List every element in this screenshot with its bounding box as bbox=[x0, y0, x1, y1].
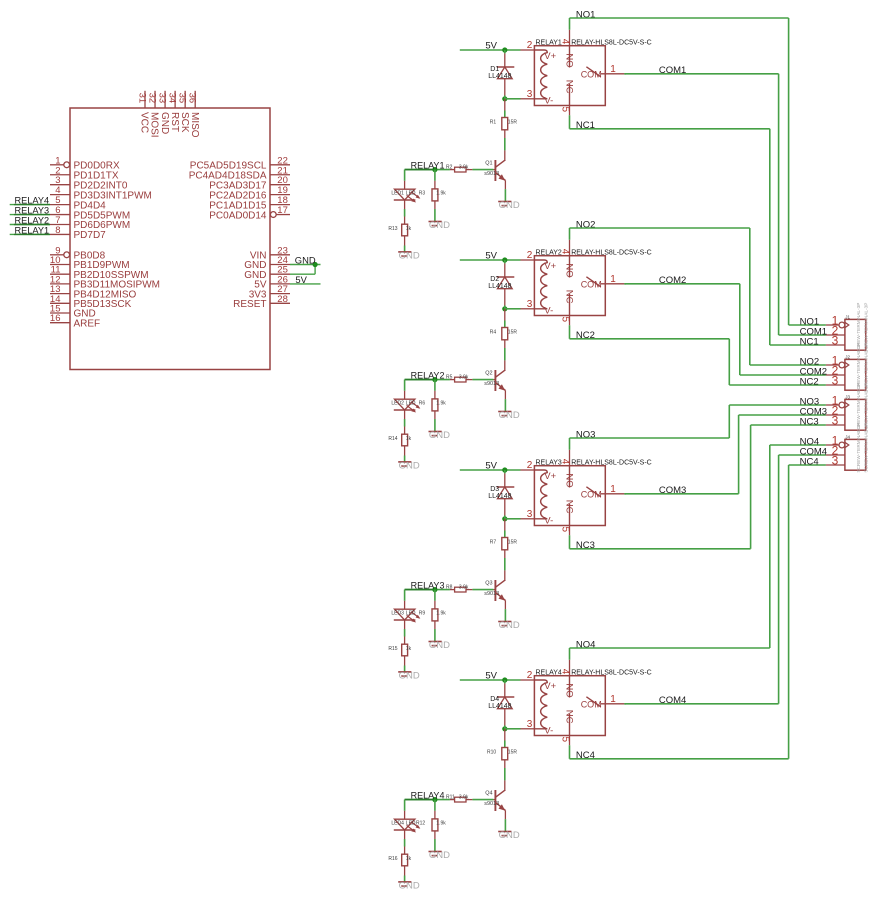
wire NO4 vertical stub bbox=[569, 648, 571, 660]
mcu pin 9 PB0D8 bbox=[50, 245, 106, 261]
label RELAY2 at mcu bbox=[15, 215, 50, 225]
label R5 bbox=[446, 375, 453, 381]
pin 1 label relay4 bbox=[610, 694, 616, 705]
label 1k value of R14 bbox=[406, 436, 412, 442]
svg-text:LED: LED bbox=[406, 611, 416, 617]
label COM2 at terminal bbox=[800, 366, 827, 377]
label COM relay1 bbox=[581, 70, 602, 80]
svg-text:PD7D7: PD7D7 bbox=[74, 230, 107, 241]
svg-text:15R: 15R bbox=[508, 120, 518, 126]
svg-text:NO: NO bbox=[564, 263, 575, 277]
label 1.9k value of R3 bbox=[436, 191, 446, 197]
diode D3 bbox=[497, 470, 514, 519]
svg-text:R6: R6 bbox=[419, 401, 426, 407]
connector J4 pin 2 bbox=[826, 454, 845, 456]
label R14 bbox=[388, 436, 397, 442]
svg-text:Q1: Q1 bbox=[485, 161, 492, 167]
label COM1 at terminal bbox=[800, 326, 827, 337]
wire NC3 vertical stub bbox=[569, 535, 571, 549]
pin 3 label relay2 bbox=[527, 299, 533, 310]
mcu pin 32 MOSI bbox=[146, 91, 159, 138]
wire net NO1 route to terminal bbox=[570, 18, 826, 325]
label RELAY-HLS8L-DC5V-S-C value bbox=[571, 670, 652, 677]
relay2 pin1 COM stub bbox=[601, 283, 625, 285]
label COM relay2 bbox=[581, 280, 602, 290]
wire NO1 vertical stub bbox=[569, 18, 571, 30]
pin 4 label relay2 bbox=[559, 249, 570, 255]
svg-text:5V: 5V bbox=[485, 461, 497, 472]
resistor R4 15R bbox=[502, 309, 508, 361]
wire net GND at mcu pins 24-25 bbox=[290, 265, 321, 275]
relay RELAY4 body bbox=[534, 676, 605, 736]
label GND at mcu bbox=[295, 255, 316, 266]
svg-text:NO: NO bbox=[564, 473, 575, 487]
node base junction relay2 bbox=[432, 377, 437, 382]
svg-text:V-: V- bbox=[544, 305, 553, 316]
led LED2 bbox=[394, 399, 421, 412]
wire relay2 pin3 bbox=[505, 308, 535, 310]
relay3 pin1 COM stub bbox=[601, 493, 625, 495]
label 1.9k value of R12 bbox=[436, 821, 446, 827]
wire relay4 pin3 bbox=[505, 728, 535, 730]
svg-text:R12: R12 bbox=[416, 821, 425, 827]
label SCREW-TERMINAL-3P name J2 bbox=[856, 343, 861, 393]
relay3 coil bbox=[534, 470, 547, 519]
label D4 bbox=[490, 696, 499, 703]
pin 3 label J1 bbox=[832, 333, 839, 347]
wire NC1 vertical stub bbox=[569, 115, 571, 129]
pin 2 label relay4 bbox=[527, 670, 533, 681]
wire NO3 vertical stub bbox=[569, 438, 571, 450]
relay RELAY1 body bbox=[534, 46, 605, 106]
svg-text:GND: GND bbox=[499, 200, 520, 211]
wire relay1 pin3 bbox=[505, 98, 535, 100]
mcu pin 36 MISO bbox=[187, 91, 200, 138]
wire NO2 vertical stub bbox=[569, 228, 571, 240]
svg-text:5: 5 bbox=[559, 317, 570, 323]
mcu pin 3 PD2D2INT0 bbox=[50, 175, 128, 191]
label LED value of LED3 bbox=[406, 611, 416, 617]
svg-text:RESET: RESET bbox=[233, 299, 266, 310]
relay3 pin4 NO stub bbox=[569, 450, 571, 488]
label 1.9k value of R6 bbox=[436, 401, 446, 407]
svg-text:RELAY2: RELAY2 bbox=[536, 250, 562, 257]
ground below R13 bbox=[398, 250, 420, 261]
label s9013 value of Q3 bbox=[484, 591, 499, 597]
pin 4 label relay1 bbox=[559, 39, 570, 45]
svg-text:LED1: LED1 bbox=[391, 191, 404, 197]
resistor R5 3.9k bbox=[450, 377, 496, 382]
pin 1 label relay2 bbox=[610, 274, 616, 285]
mcu pin 14 PB5D13SCK bbox=[50, 294, 132, 310]
label s9013 value of Q2 bbox=[484, 381, 499, 387]
transistor Q3 bbox=[495, 570, 505, 621]
svg-text:3: 3 bbox=[832, 333, 839, 347]
svg-text:V+: V+ bbox=[544, 681, 556, 692]
resistor R7 15R bbox=[502, 519, 508, 571]
resistor R9 1.9k bbox=[432, 590, 438, 642]
svg-text:GND: GND bbox=[499, 410, 520, 421]
label COM3 at terminal bbox=[800, 406, 827, 417]
mcu pin 16 AREF bbox=[50, 313, 100, 329]
connector J2 pin 3 bbox=[826, 384, 845, 386]
label V- relay1 bbox=[544, 95, 553, 106]
label 15R value of R4 bbox=[508, 330, 518, 336]
svg-text:V+: V+ bbox=[544, 471, 556, 482]
ground below R14 bbox=[398, 460, 420, 471]
label J1 designator bbox=[845, 315, 850, 320]
svg-text:COM: COM bbox=[581, 700, 602, 710]
resistor R3 1.9k bbox=[432, 170, 438, 222]
pin 3 label J3 bbox=[832, 413, 839, 427]
mcu pin 18 PC1AD1D15 bbox=[209, 195, 290, 211]
svg-text:J3: J3 bbox=[845, 395, 850, 400]
wire 5V rail relay4 bbox=[460, 679, 521, 681]
resistor R15 1k bbox=[402, 620, 408, 672]
wire relay2 driver input row bbox=[405, 379, 450, 381]
label 3.9k value of R8 bbox=[459, 585, 469, 591]
label R10 bbox=[487, 750, 496, 756]
relay4 switch blade bbox=[586, 697, 600, 707]
label 15R value of R10 bbox=[508, 750, 518, 756]
pin 3 label relay1 bbox=[527, 89, 533, 100]
svg-text:1: 1 bbox=[610, 694, 616, 705]
svg-text:16: 16 bbox=[50, 313, 61, 324]
label RELAY4 at mcu bbox=[15, 195, 50, 205]
connector J2 body bbox=[845, 359, 866, 390]
svg-text:RELAY3: RELAY3 bbox=[15, 205, 50, 215]
label Q1 bbox=[485, 161, 492, 167]
pin 4 label relay3 bbox=[559, 459, 570, 465]
svg-text:36: 36 bbox=[187, 93, 198, 104]
svg-text:GND: GND bbox=[399, 880, 420, 891]
pin 2 label relay2 bbox=[527, 250, 533, 261]
label LED value of LED4 bbox=[406, 821, 416, 827]
relay3 pin5 NC stub bbox=[569, 504, 571, 535]
label R1 bbox=[490, 120, 497, 126]
mcu pin 20 PC3AD3D17 bbox=[209, 175, 290, 191]
label NO4 net bbox=[576, 639, 596, 650]
svg-text:3: 3 bbox=[527, 299, 533, 310]
svg-text:33: 33 bbox=[156, 93, 167, 104]
svg-text:s9013: s9013 bbox=[484, 171, 499, 177]
label R15 bbox=[388, 646, 397, 652]
resistor R2 3.9k bbox=[450, 167, 496, 172]
label 3.9k value of R2 bbox=[459, 165, 469, 171]
svg-text:LED3: LED3 bbox=[391, 611, 404, 617]
label NO contact relay1 bbox=[564, 53, 575, 67]
svg-text:4: 4 bbox=[559, 669, 570, 675]
ground below R9 bbox=[429, 640, 451, 651]
label 15R value of R7 bbox=[508, 540, 518, 546]
label R13 bbox=[388, 226, 397, 232]
label NO2 at terminal bbox=[800, 356, 820, 367]
label Q4 bbox=[485, 791, 492, 797]
svg-text:NC: NC bbox=[564, 710, 575, 724]
relay RELAY3 body bbox=[534, 466, 605, 526]
ground below R6 bbox=[429, 430, 451, 441]
mcu pin 22 PC5AD5D19SCL bbox=[190, 155, 290, 171]
node Vminus junction relay1 bbox=[502, 96, 507, 101]
node 5V junction relay2 bbox=[502, 257, 507, 262]
label R3 bbox=[419, 191, 426, 197]
svg-text:3: 3 bbox=[527, 719, 533, 730]
label NC contact relay2 bbox=[564, 290, 575, 304]
wire led branch relay4 bbox=[404, 800, 406, 820]
wire net COM3 route to terminal bbox=[624, 415, 826, 494]
pin 1 label J4 bbox=[832, 433, 839, 447]
label V- relay3 bbox=[544, 515, 553, 526]
label V+ relay4 bbox=[544, 681, 556, 692]
svg-text:1: 1 bbox=[610, 64, 616, 75]
wire net COM1 route to terminal bbox=[624, 74, 826, 335]
label D3 bbox=[490, 486, 499, 493]
resistor R13 1k bbox=[402, 200, 408, 252]
label NO contact relay4 bbox=[564, 683, 575, 697]
svg-text:1.9k: 1.9k bbox=[436, 191, 446, 197]
svg-text:NC4: NC4 bbox=[800, 456, 819, 467]
svg-text:GND: GND bbox=[499, 620, 520, 631]
svg-text:4: 4 bbox=[559, 249, 570, 255]
junction GND elbow bbox=[313, 262, 318, 267]
svg-text:NC1: NC1 bbox=[800, 336, 819, 347]
svg-text:NC: NC bbox=[564, 500, 575, 514]
svg-text:V+: V+ bbox=[544, 261, 556, 272]
label R11 bbox=[446, 795, 455, 801]
svg-text:VCC: VCC bbox=[139, 112, 150, 133]
svg-text:4: 4 bbox=[559, 459, 570, 465]
svg-text:AREF: AREF bbox=[74, 318, 101, 329]
label COM4 at terminal bbox=[800, 446, 827, 457]
svg-text:5V: 5V bbox=[485, 41, 497, 52]
resistor R14 1k bbox=[402, 410, 408, 462]
svg-text:LL4148: LL4148 bbox=[488, 493, 511, 500]
wire led branch relay1 bbox=[404, 170, 406, 190]
label NO3 net bbox=[576, 429, 596, 440]
label NC1 net bbox=[576, 120, 595, 131]
svg-text:LED4: LED4 bbox=[391, 821, 404, 827]
label NO4 at terminal bbox=[800, 436, 820, 447]
label V- relay2 bbox=[544, 305, 553, 316]
label R9 bbox=[419, 611, 426, 617]
wire net NO4 route to terminal bbox=[570, 445, 826, 648]
label 1k value of R16 bbox=[406, 856, 412, 862]
label RELAY-HLS8L-DC5V-S-C value bbox=[571, 460, 652, 467]
label R2 bbox=[446, 165, 453, 171]
label RELAY2 designator bbox=[536, 250, 562, 257]
svg-text:1k: 1k bbox=[406, 226, 412, 232]
wire net 5V at mcu pin 26 bbox=[290, 283, 321, 285]
relay3 switch blade bbox=[586, 487, 600, 497]
led LED3 bbox=[394, 609, 421, 622]
label s9013 value of Q1 bbox=[484, 171, 499, 177]
svg-text:4: 4 bbox=[559, 39, 570, 45]
svg-text:V-: V- bbox=[544, 95, 553, 106]
wire NC2 vertical stub bbox=[569, 325, 571, 339]
ground below R12 bbox=[429, 850, 451, 861]
label 1k value of R15 bbox=[406, 646, 412, 652]
label NC contact relay3 bbox=[564, 500, 575, 514]
svg-text:NO: NO bbox=[564, 53, 575, 67]
relay1 pin5 NC stub bbox=[569, 84, 571, 115]
label RELAY4 net at driver bbox=[411, 790, 445, 800]
label J3 designator bbox=[845, 395, 850, 400]
label RELAY2 net at driver bbox=[411, 370, 445, 380]
relay1 pin4 NO stub bbox=[569, 30, 571, 68]
led LED1 bbox=[394, 189, 421, 202]
label R8 bbox=[446, 585, 453, 591]
connector J3 body bbox=[845, 399, 866, 430]
connector J2 pin 1 bbox=[826, 362, 849, 368]
svg-text:31: 31 bbox=[136, 93, 147, 104]
svg-text:RELAY-HLS8L-DC5V-S-C: RELAY-HLS8L-DC5V-S-C bbox=[571, 670, 652, 677]
svg-text:8: 8 bbox=[55, 225, 60, 236]
svg-text:SCREW-TERMINAL-3P: SCREW-TERMINAL-3P bbox=[856, 423, 861, 473]
svg-text:LED2: LED2 bbox=[391, 401, 404, 407]
diode D4 bbox=[497, 680, 514, 729]
label Q2 bbox=[485, 371, 492, 377]
label NC4 at terminal bbox=[800, 456, 819, 467]
svg-text:1k: 1k bbox=[406, 436, 412, 442]
node 5V junction relay1 bbox=[502, 47, 507, 52]
svg-text:NC3: NC3 bbox=[800, 416, 819, 427]
wire net COM2 route to terminal bbox=[624, 284, 826, 375]
mcu pin 10 PB1D9PWM bbox=[50, 255, 130, 271]
resistor R16 1k bbox=[402, 830, 408, 882]
mcu pin 11 PB2D10SSPWM bbox=[50, 265, 149, 281]
svg-text:1.9k: 1.9k bbox=[436, 401, 446, 407]
transistor Q1 bbox=[495, 150, 505, 201]
svg-text:5: 5 bbox=[559, 737, 570, 743]
label LED1 bbox=[391, 191, 404, 197]
svg-text:Q3: Q3 bbox=[485, 581, 492, 587]
label R12 bbox=[416, 821, 425, 827]
node base junction relay3 bbox=[432, 587, 437, 592]
svg-text:GND: GND bbox=[159, 112, 170, 134]
diode D1 bbox=[497, 50, 514, 99]
label NC3 net bbox=[576, 540, 595, 551]
label COM4 net bbox=[659, 695, 686, 706]
pin 4 label relay4 bbox=[559, 669, 570, 675]
svg-text:GND: GND bbox=[429, 430, 450, 441]
wire relay4 pin2 stub bbox=[521, 679, 535, 681]
svg-text:R14: R14 bbox=[388, 436, 397, 442]
label NO1 at terminal bbox=[800, 316, 820, 327]
label 1k value of R13 bbox=[406, 226, 412, 232]
svg-text:V-: V- bbox=[544, 515, 553, 526]
pin 2 label J1 bbox=[832, 323, 839, 337]
relay4 pin5 NC stub bbox=[569, 714, 571, 745]
svg-text:3: 3 bbox=[527, 509, 533, 520]
svg-text:R3: R3 bbox=[419, 191, 426, 197]
mcu pin 19 PC2AD2D16 bbox=[209, 185, 290, 201]
resistor R8 3.9k bbox=[450, 587, 496, 592]
svg-text:LL4148: LL4148 bbox=[488, 73, 511, 80]
svg-text:28: 28 bbox=[277, 294, 288, 305]
mcu pin 5 PD4D4 bbox=[50, 195, 106, 211]
label SCREW-TERMINAL-3P value J3 bbox=[863, 383, 868, 433]
svg-text:5V: 5V bbox=[295, 274, 307, 285]
mcu pin 28 RESET bbox=[233, 294, 290, 310]
wire net NO2 route to terminal bbox=[570, 228, 826, 365]
label J2 designator bbox=[845, 355, 850, 360]
resistor R1 15R bbox=[502, 99, 508, 151]
label NO contact relay2 bbox=[564, 263, 575, 277]
svg-text:RELAY3: RELAY3 bbox=[536, 460, 562, 467]
label NC2 at terminal bbox=[800, 376, 819, 387]
wire net NC1 route to terminal bbox=[570, 129, 826, 345]
pin 2 label J3 bbox=[832, 403, 839, 417]
svg-text:GND: GND bbox=[499, 830, 520, 841]
svg-text:RELAY2: RELAY2 bbox=[411, 370, 445, 380]
node base junction relay1 bbox=[432, 167, 437, 172]
svg-text:2: 2 bbox=[527, 670, 533, 681]
wire net NC3 route to terminal bbox=[570, 425, 826, 549]
svg-text:R11: R11 bbox=[446, 795, 455, 801]
svg-text:5: 5 bbox=[559, 107, 570, 113]
wire relay1 pin2 stub bbox=[521, 49, 535, 51]
label COM2 net bbox=[659, 275, 686, 286]
mcu pin 2 PD1D1TX bbox=[50, 165, 119, 181]
svg-text:GND: GND bbox=[399, 250, 420, 261]
label RELAY3 at mcu bbox=[15, 205, 50, 215]
relay4 pin4 NO stub bbox=[569, 660, 571, 698]
relay2 switch blade bbox=[586, 277, 600, 287]
svg-text:1: 1 bbox=[610, 274, 616, 285]
node base junction relay4 bbox=[432, 797, 437, 802]
mcu pin 1 PD0D0RX bbox=[50, 155, 120, 171]
label NC4 net bbox=[576, 750, 595, 761]
label SCREW-TERMINAL-3P value J2 bbox=[863, 343, 868, 393]
ground below R15 bbox=[398, 670, 420, 681]
svg-text:RELAY4: RELAY4 bbox=[15, 195, 50, 205]
label RELAY1 designator bbox=[536, 40, 562, 47]
svg-text:GND: GND bbox=[429, 220, 450, 231]
svg-text:R8: R8 bbox=[446, 585, 453, 591]
label NO2 net bbox=[576, 219, 596, 230]
wire 5V rail relay2 bbox=[460, 259, 521, 261]
connector J4 body bbox=[845, 439, 866, 470]
relay1 switch blade bbox=[586, 67, 600, 77]
label 5V at mcu bbox=[295, 274, 307, 285]
svg-text:s9013: s9013 bbox=[484, 591, 499, 597]
pin 3 label relay4 bbox=[527, 719, 533, 730]
svg-text:2: 2 bbox=[527, 40, 533, 51]
label RELAY4 designator bbox=[536, 670, 562, 677]
label RELAY1 at mcu bbox=[15, 225, 50, 235]
label NO3 at terminal bbox=[800, 396, 820, 407]
label LL4148 value of D1 bbox=[488, 73, 511, 80]
label 5V relay2 bbox=[485, 251, 497, 262]
svg-text:NO: NO bbox=[564, 683, 575, 697]
svg-text:32: 32 bbox=[146, 93, 157, 104]
wire relay3 driver input row bbox=[405, 589, 450, 591]
mcu pin 7 PD6D6PWM bbox=[50, 215, 130, 231]
pin 2 label J2 bbox=[832, 363, 839, 377]
label NC1 at terminal bbox=[800, 336, 819, 347]
svg-text:R4: R4 bbox=[490, 330, 497, 336]
wire relay3 pin3 bbox=[505, 518, 535, 520]
wire relay3 pin2 stub bbox=[521, 469, 535, 471]
label LED value of LED1 bbox=[406, 191, 416, 197]
pin 5 label relay2 bbox=[559, 317, 570, 323]
pin 3 label J2 bbox=[832, 373, 839, 387]
relay4 coil bbox=[534, 680, 547, 729]
label 15R value of R1 bbox=[508, 120, 518, 126]
label COM3 net bbox=[659, 485, 686, 496]
svg-text:GND: GND bbox=[399, 460, 420, 471]
label RELAY1 net at driver bbox=[411, 160, 445, 170]
